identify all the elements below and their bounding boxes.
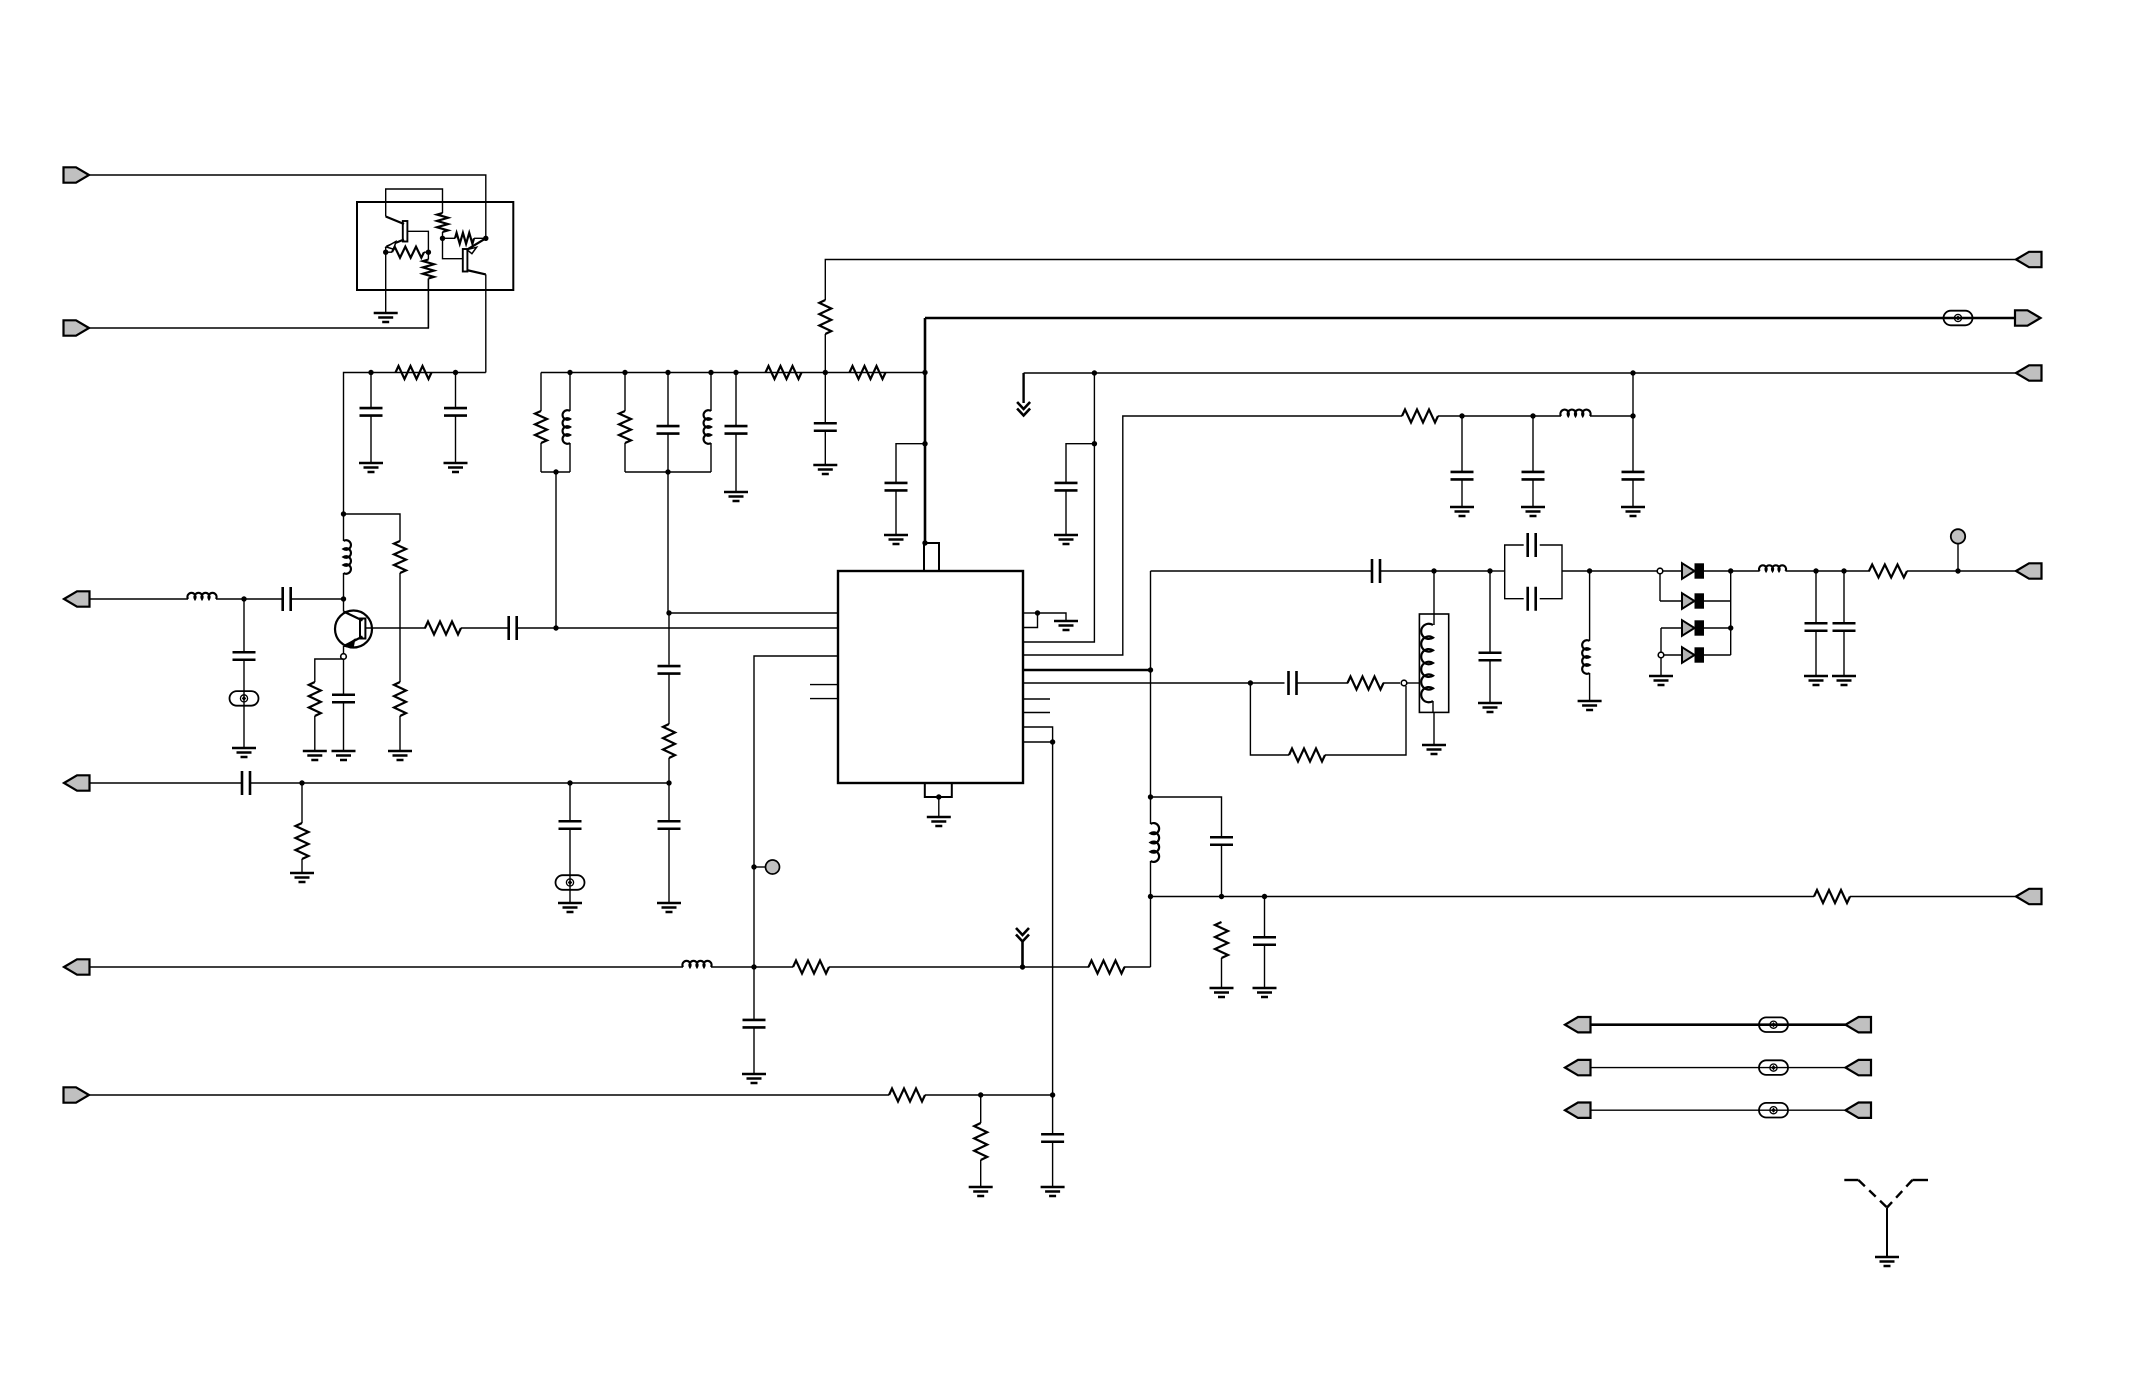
wire R12 to bar A: [540, 443, 542, 472]
capacitor C23: [1289, 671, 1297, 695]
connector J17 body: [1846, 1103, 1872, 1118]
capacitor C29: [559, 821, 582, 829]
connector J6 body: [64, 1087, 90, 1102]
resistor R26: [974, 1123, 987, 1160]
ground under antenna: [1875, 1257, 1899, 1266]
resistor R8 (bias upper): [394, 541, 406, 573]
junction row967 / C26 chain: [751, 964, 756, 969]
wire C18 to ground: [1489, 660, 1491, 703]
wire jumper W3: [1591, 1109, 1846, 1111]
resistor R10 (emitter): [309, 682, 321, 716]
wire C24 to bar: [1221, 845, 1223, 897]
wire net C down to row: [1632, 373, 1634, 416]
wire Q1 base lead: [407, 231, 429, 252]
U1 left stub pin a: [810, 684, 839, 686]
resistor R3 (pair left): [392, 247, 424, 258]
wire R9 to ground: [399, 716, 401, 751]
U1 top pin box: [924, 543, 939, 571]
wire J4 to C28: [90, 782, 243, 784]
ground under FB1: [232, 748, 256, 757]
wire C18 to C19 pair: [1490, 570, 1505, 572]
wire L7 to ground: [1589, 673, 1591, 701]
resistor R6 (pair right): [455, 233, 474, 244]
wire C22 stem: [1843, 571, 1845, 622]
inductor L2: [187, 593, 216, 599]
ground under C4: [444, 463, 468, 472]
junction VCC at pin box: [922, 540, 927, 545]
wire C5 to Q3 node: [291, 598, 344, 600]
wire D4 anode stub: [1664, 654, 1682, 656]
junction Q1 emitter/R3: [383, 250, 388, 255]
wire R10 to ground: [314, 716, 316, 751]
capacitor C26: [743, 1020, 766, 1027]
wire U1 pin jumper right: [1023, 612, 1038, 614]
wire Q2 collector down to rail: [485, 274, 487, 372]
wire R13 to bar B: [624, 443, 626, 472]
open circle T1 tap: [1401, 680, 1407, 686]
wire J6 to R25: [89, 1094, 889, 1096]
transistor pair U2 outline box: [357, 202, 513, 290]
wire net J2 to R4 bottom: [89, 279, 428, 329]
wire tank node to C24: [1151, 797, 1222, 837]
wire rail corner down to R12: [540, 373, 542, 412]
transistor Q3 emitter arrow: [345, 639, 355, 648]
junction row end: [1630, 413, 1635, 418]
transistor Q3 collector lead: [344, 612, 363, 621]
wire T1 top lead: [1433, 571, 1435, 625]
resistor R4 (pair bottom): [423, 260, 434, 279]
wire pin 656 net to row 967: [753, 867, 755, 967]
ground under C14: [1450, 507, 1474, 516]
ground under R27: [290, 873, 314, 882]
diode D3: [1682, 620, 1704, 636]
wire C29 stem: [569, 783, 571, 821]
junction R3/R4 node: [426, 250, 431, 255]
ground under C15: [1521, 507, 1545, 516]
wire loop lower branch: [1250, 683, 1289, 755]
ground under Q1: [374, 313, 398, 322]
junction C21: [1813, 568, 1818, 573]
wire R11 to C8: [461, 627, 509, 629]
wire L4 to bar A: [569, 443, 571, 472]
capacitor C10: [725, 426, 748, 434]
capacitor C17: [1372, 559, 1380, 583]
transformer T1 winding: [1421, 624, 1433, 703]
junction rail B at C10: [733, 370, 738, 375]
wire L5 top: [710, 373, 712, 412]
junction bar left: [1148, 894, 1153, 899]
wire tank top rail: [1151, 570, 1373, 572]
off page arrow A2: [1016, 928, 1029, 942]
connector J7 body: [2016, 252, 2042, 267]
transistor Q3 body circle: [335, 611, 372, 648]
junction rail B at L5: [708, 370, 713, 375]
wire D2 cathode stub: [1703, 600, 1731, 602]
junction R26 branch: [978, 1092, 983, 1097]
resistor R9 (bias lower): [394, 682, 406, 716]
resistor R17: [1402, 410, 1438, 423]
wire Q3 emitter stub: [343, 646, 345, 654]
connector J12 body: [1565, 1017, 1591, 1032]
junction R27 branch: [299, 780, 304, 785]
wire diodes to L8: [1731, 570, 1760, 572]
inductor L6: [1560, 410, 1590, 416]
ground under FB3: [558, 903, 582, 912]
ferrite bead FB5: [1759, 1060, 1788, 1075]
wire R26 to ground: [980, 1160, 982, 1187]
wire C6 to ground via FB1: [243, 660, 245, 748]
wire R28 to row: [668, 758, 670, 783]
junction L7 branch: [1587, 568, 1592, 573]
resistor R23: [793, 961, 829, 974]
wire net C: [1024, 372, 2016, 374]
connector J2 body: [64, 320, 90, 335]
wire C16 to ground: [1632, 479, 1634, 507]
wire R8 to R9: [399, 573, 401, 682]
wire D3 cathode stub: [1703, 627, 1731, 629]
wire rail B: [541, 372, 925, 374]
ground under C25: [1253, 988, 1277, 997]
wire L3 top lead: [343, 514, 345, 541]
ground under R26: [969, 1187, 993, 1196]
wire U1 pin 613 from divider: [669, 612, 838, 614]
wire C19 upper right: [1540, 545, 1562, 571]
capacitor C4: [444, 408, 467, 416]
transistor Q3 emitter lead: [344, 637, 363, 647]
junction rail A / C3: [368, 370, 373, 375]
wire R25 to node: [925, 1094, 981, 1096]
capacitor C8 (base series): [509, 616, 517, 640]
wire R4 top lead: [427, 252, 429, 259]
wire U2 internal top rail: [386, 189, 443, 217]
antenna left dashed branch: [1858, 1180, 1887, 1208]
wire bias tap: [344, 514, 401, 541]
wire C13 to ground: [1065, 490, 1067, 535]
inductor L9: [1151, 823, 1160, 862]
resistor R18: [1869, 565, 1907, 578]
wire L7 node to diodes: [1590, 570, 1660, 572]
transistor Q3 base bar: [360, 619, 365, 639]
wire emitter to C7: [343, 659, 345, 695]
capacitor C19: [1528, 533, 1536, 557]
antenna stem: [1886, 1208, 1888, 1257]
wire J5 to L10: [90, 966, 684, 968]
wire bar B down to pin row: [667, 472, 669, 613]
transistor Q2 emitter lead: [467, 238, 486, 250]
wire R27 to ground: [301, 859, 303, 873]
wire C9 top: [667, 373, 669, 427]
junction rail B at L4: [567, 370, 572, 375]
wire U1 pin 742: [1023, 741, 1053, 743]
junction divider tee 613: [666, 610, 671, 615]
wire TP2 stem: [1957, 544, 1959, 571]
ground under R9: [388, 751, 412, 760]
wire C14 to ground: [1461, 479, 1463, 507]
junction TP1 stub: [751, 864, 756, 869]
wire R26 top lead: [980, 1095, 982, 1123]
junction diode bus mid: [1728, 625, 1733, 630]
wire R14 to rail B: [824, 334, 826, 423]
wire arrow node to R24: [1023, 966, 1090, 968]
junction J3 line / C6 branch: [241, 596, 246, 601]
wire U1 pin 656 feed: [754, 656, 838, 867]
capacitor C14: [1451, 472, 1474, 480]
wire arrow stem: [1021, 942, 1024, 968]
junction net C / LC row: [1630, 370, 1635, 375]
wire C30 to R28: [668, 674, 670, 725]
capacitor C24: [1210, 837, 1233, 845]
wire jumper W1: [1591, 1023, 1846, 1026]
resistor R14: [819, 300, 831, 334]
junction bottom pin stem: [936, 794, 941, 799]
wire diode right bus: [1730, 571, 1732, 655]
resistor R21: [1814, 890, 1850, 903]
junction thick pin / tank: [1148, 667, 1153, 672]
capacitor C13: [1055, 483, 1078, 491]
capacitor C21: [1805, 623, 1828, 631]
resistor R16 on rail B: [850, 366, 886, 379]
connector J10 body: [2016, 563, 2042, 578]
wire T1 to C18: [1434, 570, 1490, 572]
junction R5/R6 node: [440, 236, 445, 241]
wire D3-D4 left link: [1660, 628, 1662, 655]
wire C8 to node: [517, 627, 556, 629]
wire tank vertical: [1150, 571, 1152, 797]
transistor Q1 emitter lead: [387, 240, 405, 247]
wire R5 bottom lead: [442, 232, 444, 238]
wire tap into T1: [1407, 682, 1419, 684]
off page arrow A1: [1017, 402, 1030, 416]
wire C21 to ground: [1815, 631, 1817, 676]
wire C22 to ground: [1843, 631, 1845, 676]
wire T1 bottom lead: [1432, 701, 1434, 712]
wire C9 to bar B: [667, 434, 669, 473]
wire C25 to ground: [1264, 945, 1266, 988]
ferrite bead FB2 on VCC: [1944, 311, 1973, 326]
wire C20 lower right: [1540, 571, 1562, 599]
wire C12 to ground: [895, 490, 897, 535]
diode D2: [1682, 593, 1704, 609]
ground under L7: [1578, 701, 1602, 710]
wire D4 cathode stub: [1703, 654, 1731, 656]
wire output row 896: [1151, 896, 1815, 898]
wire L6 to net C drop: [1590, 415, 1633, 417]
wire D1 anode stub: [1663, 570, 1682, 572]
ground under C26: [742, 1074, 766, 1083]
wire pin 742 net down: [1052, 742, 1054, 1095]
wire C19 upper branch: [1505, 545, 1524, 571]
wire to divider end: [570, 782, 669, 784]
transformer T1 box: [1419, 614, 1448, 712]
wire C23 to R19: [1297, 682, 1349, 684]
capacitor C28: [242, 771, 250, 795]
wire C28 to R27 node: [250, 782, 302, 784]
diode D1: [1682, 563, 1704, 579]
wire C7 to ground: [343, 702, 345, 751]
junction arrow node: [1020, 964, 1025, 969]
capacitor C3: [360, 408, 383, 416]
wire D1-D2 left link: [1659, 574, 1661, 601]
wire bar A: [541, 471, 570, 473]
antenna right tick: [1912, 1179, 1928, 1181]
wire C22 to R18: [1844, 570, 1870, 572]
junction rail B at R13: [622, 370, 627, 375]
inductor L4: [563, 410, 570, 444]
wire Q2 base lead: [443, 238, 464, 258]
capacitor C11: [814, 423, 837, 431]
wire D1 cathode stub: [1703, 570, 1731, 572]
wire C11 to ground: [824, 431, 826, 465]
junction base row / divider: [553, 625, 558, 630]
wire C18 stem: [1489, 571, 1491, 652]
wire R18 to TP2: [1907, 570, 1958, 572]
wire R3 left lead: [386, 251, 392, 253]
wire C17 to T1: [1380, 570, 1434, 572]
wire C29 to ground via FB3: [569, 829, 571, 903]
wire C15 to L6: [1533, 415, 1561, 417]
wire divider to C31: [668, 783, 670, 821]
test point TP1: [766, 860, 780, 874]
open circle Q3 emitter test point: [341, 654, 347, 660]
wire L9 to bar: [1150, 861, 1152, 897]
junction bar A center: [553, 469, 558, 474]
inductor L10: [682, 961, 711, 967]
wire C6 branch stem: [243, 599, 245, 652]
wire T1 to ground: [1433, 712, 1435, 745]
capacitor C9: [657, 426, 680, 434]
ground at U1 right pin: [1054, 621, 1078, 630]
junction C13 branch: [1092, 441, 1097, 446]
wire node to divider: [302, 782, 570, 784]
wire C27 to ground: [1052, 1142, 1054, 1187]
wire C27 stem: [1052, 1095, 1054, 1134]
junction C18 top: [1487, 568, 1492, 573]
wire R4 bottom lead: [427, 279, 429, 329]
ground under R22: [1210, 988, 1234, 997]
junction R6/Q2 emitter: [483, 236, 488, 241]
connector J16 body: [1565, 1103, 1591, 1118]
junction T1 top: [1431, 568, 1436, 573]
connector J14 body: [1565, 1060, 1591, 1075]
connector J8 body: [2015, 310, 2041, 325]
capacitor C31: [658, 821, 681, 829]
wire R21 to J11: [1850, 896, 2016, 898]
connector J1 body: [64, 167, 90, 182]
wire divider top: [668, 613, 670, 665]
wire C26 stem: [753, 967, 755, 1020]
wire C12 branch: [896, 444, 925, 483]
wire R24 to bar riser: [1124, 966, 1151, 968]
wire L8 to C21: [1786, 570, 1817, 572]
junction C22: [1841, 568, 1846, 573]
wire L7 stem: [1589, 571, 1591, 641]
wire R17 to C14: [1438, 415, 1462, 417]
transistor Q2 base bar: [463, 249, 468, 272]
wire U1 pin 727 jog: [1023, 727, 1053, 742]
wire bottom pin to ground: [938, 797, 940, 817]
connector J11 body: [2016, 889, 2042, 904]
diode D4: [1682, 647, 1704, 663]
wire L5 to bar B: [710, 443, 712, 472]
connector J9 body: [2016, 365, 2042, 380]
wire bar to row 967: [1150, 897, 1152, 968]
wire base row to U1 pin: [556, 627, 838, 629]
wire TP2 to J10: [1958, 570, 2016, 572]
ground under C18: [1478, 703, 1502, 712]
wire C26 to ground: [753, 1027, 755, 1074]
ground under C13: [1054, 535, 1078, 544]
op-amp U1 (main IC box): [838, 571, 1023, 783]
ground under C12: [884, 535, 908, 544]
wire C4 to ground: [455, 416, 457, 464]
ground under C22: [1832, 676, 1856, 685]
wire J3 to L2: [90, 598, 189, 600]
wire U1 thick pin 670: [1023, 669, 1151, 672]
wire U1 pin 683 row: [1023, 682, 1250, 684]
wire row 416 from U1: [1023, 416, 1402, 655]
junction bar B center: [665, 469, 670, 474]
wire L10 to R23: [711, 966, 793, 968]
wire L2 to C5 node: [216, 598, 283, 600]
junction bar C25: [1262, 894, 1267, 899]
resistor R27: [296, 823, 309, 859]
junction row/C14: [1459, 413, 1464, 418]
capacitor C22: [1833, 623, 1856, 631]
wire TP1 stub: [754, 866, 766, 868]
wire Q1 emitter to ground: [385, 247, 387, 314]
ground under C31: [657, 903, 681, 912]
junction rail A / C4: [453, 370, 458, 375]
connector J3 body: [64, 591, 90, 606]
ground under C7: [332, 751, 356, 760]
wire C3 to ground: [370, 416, 372, 464]
wire C31 to ground: [668, 829, 670, 903]
wire C20 lower branch: [1505, 571, 1524, 599]
junction divider end: [666, 780, 671, 785]
wire C21 to C22: [1816, 570, 1844, 572]
wire net J1 to Q2 emitter: [89, 175, 486, 238]
junction divider C29: [567, 780, 572, 785]
wire D2 anode stub: [1660, 600, 1682, 602]
wire emitter node branch left: [315, 659, 344, 682]
inductor L7: [1582, 640, 1589, 674]
wire bar B: [625, 471, 711, 473]
junction diode output: [1728, 568, 1733, 573]
resistor R19: [1348, 677, 1384, 690]
capacitor C27: [1041, 1134, 1064, 1142]
junction rail B / R14 column: [823, 370, 828, 375]
ground under C21: [1804, 676, 1828, 685]
resistor R22: [1215, 922, 1228, 958]
wire diode ground stem: [1660, 658, 1662, 676]
ground under C10: [724, 492, 748, 501]
resistor R12: [535, 411, 547, 443]
test point TP2: [1951, 529, 1965, 543]
junction rail B at C9: [665, 370, 670, 375]
wire loop to C23: [1250, 682, 1284, 684]
wire Q3 base row: [365, 627, 427, 629]
capacitor C20: [1528, 587, 1536, 611]
wire C3 stem: [370, 373, 372, 409]
wire R3 right lead: [424, 251, 428, 253]
inductor L5: [704, 410, 711, 444]
wire jumper to ground: [1038, 613, 1067, 621]
capacitor C12: [885, 483, 908, 491]
wire feed to U1 pin 642: [1023, 444, 1094, 642]
junction bar C24: [1219, 894, 1224, 899]
ground under C3: [359, 463, 383, 472]
ground under diodes: [1649, 676, 1673, 685]
